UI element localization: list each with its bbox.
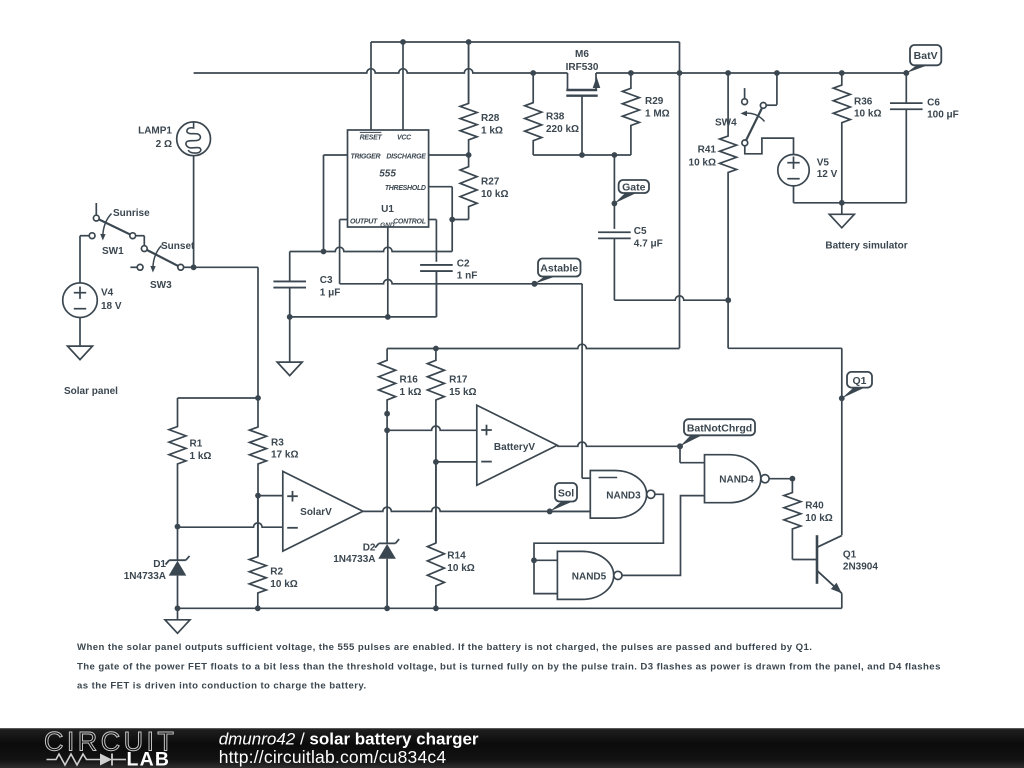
svg-text:RESET: RESET [360, 134, 383, 141]
svg-text:SW3: SW3 [150, 280, 172, 291]
svg-text:U1: U1 [381, 204, 394, 215]
svg-text:12 V: 12 V [817, 169, 838, 180]
svg-text:Solar panel: Solar panel [64, 386, 118, 397]
svg-text:R40: R40 [805, 500, 824, 511]
svg-text:15 kΩ: 15 kΩ [449, 387, 476, 398]
svg-text:R3: R3 [271, 437, 284, 448]
svg-text:1N4733A: 1N4733A [333, 554, 375, 565]
svg-text:NAND5: NAND5 [572, 571, 607, 582]
svg-text:1N4733A: 1N4733A [124, 571, 166, 582]
svg-text:C6: C6 [927, 98, 940, 109]
svg-text:LAB: LAB [127, 749, 171, 768]
svg-text:Q1: Q1 [843, 549, 857, 560]
svg-text:NAND4: NAND4 [719, 475, 754, 486]
svg-text:SolarV: SolarV [300, 507, 332, 518]
svg-text:10 kΩ: 10 kΩ [689, 157, 716, 168]
svg-text:Sunset: Sunset [161, 241, 195, 252]
svg-text:R36: R36 [854, 96, 873, 107]
svg-text:10 kΩ: 10 kΩ [805, 513, 832, 524]
svg-text:Sol: Sol [558, 487, 574, 499]
svg-text:CONTROL: CONTROL [393, 218, 426, 225]
svg-text:R38: R38 [546, 111, 565, 122]
svg-text:R1: R1 [190, 438, 203, 449]
svg-text:R2: R2 [270, 566, 283, 577]
svg-text:D1: D1 [153, 559, 166, 570]
svg-text:1 μF: 1 μF [320, 288, 341, 299]
svg-text:18 V: 18 V [101, 301, 122, 312]
svg-text:100 μF: 100 μF [927, 110, 959, 121]
svg-text:17 kΩ: 17 kΩ [271, 450, 298, 461]
svg-text:V5: V5 [817, 157, 830, 168]
svg-text:NAND3: NAND3 [606, 490, 641, 501]
svg-text:10 kΩ: 10 kΩ [447, 563, 474, 574]
svg-text:1 kΩ: 1 kΩ [400, 387, 422, 398]
svg-text:TRIGGER: TRIGGER [351, 153, 381, 160]
svg-text:VCC: VCC [397, 134, 412, 141]
svg-text:SW4: SW4 [715, 118, 737, 129]
svg-text:C3: C3 [320, 275, 333, 286]
svg-text:The gate of the power FET floa: The gate of the power FET floats to a bi… [77, 661, 941, 672]
svg-text:BatteryV: BatteryV [494, 442, 535, 453]
svg-text:Sunrise: Sunrise [113, 208, 150, 219]
svg-text:When the solar panel outputs s: When the solar panel outputs sufficient … [77, 642, 812, 653]
svg-text:1 MΩ: 1 MΩ [645, 109, 670, 120]
svg-text:BatNotChrgd: BatNotChrgd [687, 422, 752, 434]
svg-text:LAMP1: LAMP1 [138, 126, 172, 137]
svg-text:C5: C5 [634, 226, 647, 237]
svg-text:10 kΩ: 10 kΩ [854, 108, 881, 119]
svg-text:1 kΩ: 1 kΩ [481, 126, 503, 137]
svg-text:V4: V4 [101, 288, 114, 299]
svg-text:http://circuitlab.com/cu834c4: http://circuitlab.com/cu834c4 [219, 747, 447, 767]
svg-text:10 kΩ: 10 kΩ [481, 189, 508, 200]
svg-text:4.7 μF: 4.7 μF [634, 238, 663, 249]
svg-text:M6: M6 [575, 49, 589, 60]
svg-text:R28: R28 [481, 113, 500, 124]
svg-text:10 kΩ: 10 kΩ [270, 579, 297, 590]
svg-text:THRESHOLD: THRESHOLD [385, 185, 426, 192]
svg-text:OUTPUT: OUTPUT [350, 218, 378, 225]
svg-text:R27: R27 [481, 176, 500, 187]
svg-text:Gate: Gate [622, 182, 646, 194]
svg-text:DISCHARGE: DISCHARGE [386, 153, 426, 160]
svg-text:R17: R17 [449, 374, 468, 385]
svg-text:Battery simulator: Battery simulator [825, 241, 907, 252]
svg-text:Astable: Astable [540, 263, 578, 275]
svg-text:BatV: BatV [914, 50, 938, 62]
svg-text:555: 555 [379, 169, 396, 180]
svg-text:220 kΩ: 220 kΩ [546, 124, 579, 135]
svg-text:R41: R41 [698, 145, 717, 156]
svg-text:1 nF: 1 nF [457, 271, 478, 282]
svg-text:Q1: Q1 [852, 375, 866, 387]
svg-text:as the FET is driven into cond: as the FET is driven into conduction to … [77, 681, 367, 692]
svg-text:IRF530: IRF530 [566, 62, 599, 73]
svg-text:dmunro42 / solar battery charg: dmunro42 / solar battery charger [219, 730, 479, 749]
svg-text:R16: R16 [400, 374, 419, 385]
svg-text:2 Ω: 2 Ω [156, 139, 172, 150]
svg-text:C2: C2 [457, 258, 470, 269]
svg-text:R14: R14 [447, 551, 466, 562]
svg-text:SW1: SW1 [102, 246, 124, 257]
svg-text:2N3904: 2N3904 [843, 562, 878, 573]
svg-text:D2: D2 [363, 542, 376, 553]
svg-text:1 kΩ: 1 kΩ [190, 451, 212, 462]
svg-text:R29: R29 [645, 96, 664, 107]
